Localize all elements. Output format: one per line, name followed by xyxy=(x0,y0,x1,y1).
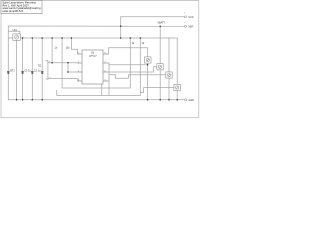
terminal GND xyxy=(185,99,194,102)
svg-text:C2 1u: C2 1u xyxy=(34,69,41,72)
wire top bus VCC xyxy=(8,37,177,39)
pin numbers xyxy=(78,52,107,81)
wire Q2 bottom xyxy=(159,70,161,100)
pin stubs xyxy=(77,54,108,81)
wire cap rail x62.1 feeding upper channel to R1 bottom xyxy=(62,38,130,88)
resistor R2 vertical xyxy=(139,38,141,93)
wire Q3 bottom xyxy=(168,78,170,100)
wire J1 pin tick 1 xyxy=(46,60,48,62)
svg-text:solar-lamp08.Sch: solar-lamp08.Sch xyxy=(2,9,23,13)
transistor Q3 xyxy=(166,72,172,78)
wire bypass branch over lamp xyxy=(8,31,19,34)
wire cap rail x32.3 xyxy=(31,38,33,100)
wire IC pin5 stub join xyxy=(103,80,109,82)
capacitor C1 symbol xyxy=(21,72,24,73)
wire IC bottom stub to channel B xyxy=(101,84,103,95)
svg-text:VBT: VBT xyxy=(189,26,194,29)
wire branch to Q1 emitter node xyxy=(109,64,148,66)
wire Q3 top from bus xyxy=(168,38,170,72)
svg-text:GND: GND xyxy=(189,99,195,102)
wire J1 pin1 to IC pin2 xyxy=(48,62,82,64)
wire J1 pin tick 2 xyxy=(46,78,48,80)
wire lamp bottom pin vertical xyxy=(16,40,18,100)
svg-text:LS1: LS1 xyxy=(13,29,18,32)
wire bus drop to IC pin1 xyxy=(71,38,82,54)
wire rail2 left corner down xyxy=(7,26,9,100)
op IC U1 xyxy=(77,50,108,84)
wire Q4 top bus end corner xyxy=(176,38,178,84)
battery BT1 symbol xyxy=(7,72,10,73)
wire Q4 bottom xyxy=(176,91,178,100)
wire rail2 drop at 160 down to Q2 top xyxy=(159,26,161,64)
transistor Q1 xyxy=(145,57,151,63)
title block xyxy=(1,1,42,14)
svg-text:VCC: VCC xyxy=(189,16,194,19)
capacitor C2 symbol xyxy=(31,72,34,73)
wire rail2 VBATT xyxy=(8,25,184,27)
wire J1 body xyxy=(47,61,49,80)
wire bottom bus GND xyxy=(8,99,184,101)
junction dots xyxy=(16,25,178,100)
wire cap rail x52.1 xyxy=(51,38,53,63)
wire Q1 bottom to bus xyxy=(147,63,149,100)
svg-text:BT1: BT1 xyxy=(10,69,15,72)
wire tie pins 2-3 vertical xyxy=(67,63,69,72)
svg-text:VBATT: VBATT xyxy=(157,21,165,24)
terminal VBATT pin xyxy=(184,13,193,29)
wire channel B lower to Q4 base xyxy=(57,88,174,96)
wire IC pin7 down right side xyxy=(103,63,109,95)
wire IC pin6 across to Q2 base xyxy=(103,67,157,72)
lamp LS1 xyxy=(13,29,21,40)
svg-text:10u: 10u xyxy=(66,47,71,50)
wire battery rail x22.6 xyxy=(22,38,24,100)
wire cap rail x42.2 xyxy=(41,38,43,100)
terminal VCC xyxy=(184,16,193,19)
wire braid to Q3 base xyxy=(109,75,166,79)
svg-text:C1 1u: C1 1u xyxy=(24,69,31,72)
wire J1 pin2 to IC pin4 xyxy=(48,79,82,81)
transistor Q2 xyxy=(157,64,163,70)
transistor Q4 xyxy=(174,84,180,90)
capacitor C3 symbol xyxy=(41,72,44,73)
wire IC pin3 stub wire xyxy=(68,71,82,73)
wire rail1 corner vertical xyxy=(120,17,122,38)
wire rail1 VCC xyxy=(121,16,185,18)
svg-text:12F629: 12F629 xyxy=(89,56,98,58)
wire IC pin8 to Q1 top xyxy=(103,48,148,57)
border frame xyxy=(1,1,199,118)
